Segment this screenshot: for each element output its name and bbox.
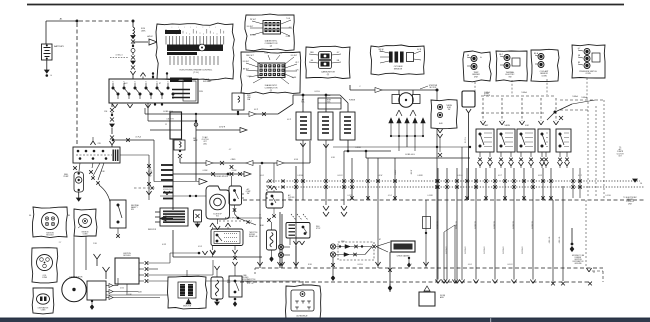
wire cross y147	[333, 146, 470, 148]
coil connector	[32, 248, 58, 283]
svg-text:0.5 T: 0.5 T	[248, 221, 252, 223]
svg-text:MOTOR: MOTOR	[430, 87, 437, 89]
svg-text:RES: RES	[227, 282, 230, 284]
svg-text:PK W-T: PK W-T	[250, 19, 257, 21]
neutral safety switch S3	[110, 200, 126, 228]
relay module stubs	[210, 223, 213, 227]
svg-text:0.8 BR-W: 0.8 BR-W	[513, 221, 515, 229]
svg-text:0.8 O: 0.8 O	[468, 264, 473, 266]
electronic engine control module U1	[156, 23, 234, 80]
wire fuse drop x470	[468, 113, 470, 147]
svg-text:THERM: THERM	[446, 105, 452, 107]
svg-text:CONN: CONN	[42, 277, 48, 279]
diagnostic connector J2	[241, 52, 301, 94]
inline connector on wire x426	[425, 200, 427, 268]
svg-text:0.5 O: 0.5 O	[388, 195, 393, 197]
svg-text:IGNITION: IGNITION	[574, 259, 582, 261]
svg-text:BATTERY: BATTERY	[54, 45, 64, 48]
wire columns center-right lower	[443, 232, 445, 280]
svg-text:5 BK-A: 5 BK-A	[572, 95, 578, 98]
throttle kicker relay K0	[431, 100, 457, 129]
svg-text:CONN: CONN	[41, 309, 46, 311]
wire fuel pump drop	[78, 192, 80, 198]
wire dashed corner right	[585, 200, 587, 266]
top border rule	[27, 4, 624, 6]
svg-text:0.8 DG-O: 0.8 DG-O	[446, 246, 448, 254]
thermal electric switch connector J6	[496, 51, 527, 81]
svg-text:0.8 BR-W: 0.8 BR-W	[532, 221, 534, 229]
wire y114 to solenoid rail	[196, 113, 278, 115]
svg-text:0.8 BR-W: 0.8 BR-W	[494, 221, 496, 229]
svg-text:(2): (2)	[327, 74, 330, 76]
svg-text:0.8 BK-LG: 0.8 BK-LG	[115, 55, 123, 57]
svg-text:STOP: STOP	[316, 228, 320, 230]
wires diagonal fan	[93, 163, 100, 176]
svg-text:0.5 Y H: 0.5 Y H	[465, 136, 467, 143]
fuse F1	[462, 91, 475, 107]
svg-text:0.8 W: 0.8 W	[378, 175, 383, 177]
wire stepper feed	[350, 89, 437, 91]
svg-text:DIODE: DIODE	[440, 295, 445, 297]
A/T throttle solenoid L1	[296, 112, 311, 140]
wire riser bundle	[73, 236, 75, 238]
stepper harness arrows	[389, 118, 393, 123]
wire stub columns right	[572, 168, 574, 198]
bus dashed y282	[240, 281, 592, 283]
wire verticals x260 x280	[259, 214, 261, 268]
diode box small	[194, 210, 202, 222]
svg-text:SOL 7.5L: SOL 7.5L	[247, 283, 254, 285]
fuel pump sender	[74, 172, 84, 192]
chain above comp switch	[230, 165, 234, 169]
wire vertical x196	[195, 114, 197, 181]
ballast resistor R1	[160, 208, 188, 226]
wire dashed stub y188	[134, 187, 156, 189]
svg-text:4 BK-LG: 4 BK-LG	[549, 236, 551, 243]
wire module pin runs	[148, 262, 170, 264]
svg-text:4 RED: 4 RED	[231, 159, 237, 161]
svg-text:UNIT: UNIT	[628, 203, 632, 205]
node junction at top bus	[76, 20, 79, 23]
battery B1	[42, 44, 53, 60]
ignition module connector (5.0L)	[33, 207, 68, 238]
wire dashed drops to relays	[482, 98, 484, 121]
wire columns to EEC	[437, 168, 439, 280]
wire dashed relay feed mid	[481, 112, 545, 114]
EGR solenoid L2	[318, 112, 333, 140]
wire x260 extend	[259, 165, 261, 215]
svg-text:MODULE: MODULE	[46, 235, 54, 237]
svg-text:5 BK-A: 5 BK-A	[581, 96, 587, 99]
wire bus vertical x173	[172, 139, 174, 210]
chain below comp switch	[234, 205, 236, 214]
svg-text:0.8 T: 0.8 T	[498, 175, 502, 177]
svg-text:SOL: SOL	[327, 102, 330, 104]
wires below switch box	[73, 166, 77, 170]
wire columns far right ground	[552, 200, 554, 281]
svg-text:0.8 DG-O: 0.8 DG-O	[484, 246, 486, 254]
svg-text:0.8 DG-O: 0.8 DG-O	[503, 246, 505, 254]
svg-text:0.8 BR: 0.8 BR	[417, 175, 423, 177]
svg-text:KICKER: KICKER	[249, 234, 256, 236]
svg-text:(2): (2)	[270, 90, 273, 92]
throttle kicker solenoid	[229, 276, 242, 297]
junction block connector	[170, 112, 182, 139]
svg-text:E7: E7	[379, 239, 381, 241]
svg-text:ST: ST	[159, 83, 161, 85]
svg-text:SELECTOR: SELECTOR	[183, 306, 192, 308]
svg-text:0.8 DG-O: 0.8 DG-O	[522, 246, 524, 254]
ground G1	[45, 70, 49, 73]
svg-text:DISTRIBUTOR: DISTRIBUTOR	[38, 308, 49, 310]
fuse link box F2	[232, 93, 244, 110]
throttle kicker relay U2	[211, 229, 243, 246]
harness heavy ticks	[161, 164, 173, 166]
wire dashed right verticals	[587, 102, 589, 198]
svg-text:AAAA: AAAA	[179, 79, 185, 82]
wire run y114	[144, 108, 146, 114]
svg-text:5 BK-A: 5 BK-A	[521, 91, 527, 94]
svg-text:CUTOFF: CUTOFF	[288, 197, 294, 199]
svg-text:RED W-T: RED W-T	[246, 55, 255, 57]
svg-text:SW: SW	[509, 76, 512, 78]
svg-text:LINK: LINK	[141, 30, 146, 32]
svg-text:0.8 BR-W: 0.8 BR-W	[437, 221, 439, 229]
svg-text:0.8 W H: 0.8 W H	[219, 127, 226, 129]
svg-text:RESISTOR: RESISTOR	[148, 229, 157, 231]
wire distributor feeds	[73, 238, 75, 278]
svg-text:THERM: THERM	[504, 125, 510, 127]
svg-text:0.5 DG-O H: 0.5 DG-O H	[163, 189, 172, 191]
ignition module U3	[115, 258, 139, 284]
resistor R2	[211, 277, 223, 299]
svg-text:SENSOR: SENSOR	[394, 68, 403, 70]
bus dotted upper	[267, 180, 640, 182]
wire idle sol drop	[217, 219, 219, 224]
svg-text:0.8 DG-O: 0.8 DG-O	[465, 246, 467, 254]
wire y174 row	[173, 173, 244, 175]
svg-text:0.8 BR-W: 0.8 BR-W	[456, 221, 458, 229]
node feed junction	[554, 111, 557, 114]
svg-text:BK W-T: BK W-T	[250, 35, 257, 37]
bottom bar	[0, 318, 650, 322]
wire column x154	[153, 140, 155, 182]
svg-text:PUMP: PUMP	[64, 176, 70, 178]
check gauges indicator	[391, 241, 415, 252]
wire mid columns	[281, 214, 283, 268]
bus dashed y268	[255, 267, 603, 269]
svg-text:SEE: SEE	[243, 275, 246, 277]
svg-text:(2): (2)	[270, 45, 273, 47]
wire module ground run	[126, 284, 128, 295]
svg-text:COMP: COMP	[246, 191, 251, 193]
wire fan right of switch	[238, 217, 262, 219]
svg-text:4 BK: 4 BK	[128, 294, 131, 296]
svg-text:0.8 GY: 0.8 GY	[507, 264, 513, 266]
svg-text:0.8 O: 0.8 O	[260, 175, 265, 177]
svg-text:BK W-T: BK W-T	[243, 69, 250, 71]
svg-text:CKT: CKT	[618, 155, 621, 157]
antenna connectors	[96, 259, 98, 266]
wire chain below flasher	[179, 150, 181, 152]
headlamp switch box S2	[73, 147, 120, 163]
ignition module pins	[139, 262, 144, 264]
relay K3	[517, 129, 535, 152]
wire switch to chain x149	[120, 154, 149, 156]
wire run y121	[147, 103, 149, 121]
svg-text:GROUND TO BE: GROUND TO BE	[572, 255, 584, 257]
svg-text:CONN: CONN	[83, 234, 89, 236]
diagnostic connector J1	[245, 14, 294, 51]
a/c cutoff switch S4	[266, 192, 283, 208]
idle stop solenoid	[206, 186, 230, 219]
connector A/102	[133, 41, 148, 43]
diode assembly	[419, 292, 435, 306]
wire y130 branch	[196, 129, 240, 131]
distributor ground	[91, 300, 93, 302]
svg-text:IDLE STOP: IDLE STOP	[213, 214, 221, 216]
connector circles pair	[278, 244, 283, 249]
svg-text:GROUND: GROUND	[574, 263, 582, 265]
wire bus tail to splice row	[172, 230, 174, 257]
dashed splice note	[219, 220, 245, 222]
svg-text:SW LAMP: SW LAMP	[203, 80, 212, 83]
svg-text:SOL: SOL	[301, 102, 304, 104]
svg-text:CONN: CONN	[585, 73, 591, 75]
wire dashed stubs from connectors	[474, 82, 476, 94]
emission selector box	[168, 276, 208, 309]
svg-text:0.8 DB: 0.8 DB	[297, 175, 303, 177]
wire check gauge drop	[389, 252, 391, 292]
svg-text:GY-R: GY-R	[417, 49, 422, 51]
svg-text:0.5 BR: 0.5 BR	[427, 195, 433, 197]
svg-text:PURGE: PURGE	[349, 100, 356, 102]
a/c fan relay K6	[286, 285, 321, 319]
wire battery feed	[46, 20, 77, 22]
ignition switch S1	[109, 79, 198, 103]
egr load resistor R3	[267, 230, 277, 250]
svg-text:0.8 LG: 0.8 LG	[457, 175, 463, 177]
svg-text:C2B: C2B	[97, 143, 100, 145]
cigar lighter / flasher	[174, 140, 185, 150]
svg-text:DISTRIBUTOR: DISTRIBUTOR	[70, 277, 83, 279]
purge solenoid L3	[340, 112, 355, 140]
svg-text:MOLDED SPLICE: MOLDED SPLICE	[214, 176, 229, 178]
svg-text:MODULE: MODULE	[123, 255, 131, 257]
ignition module connector (5.8L)	[74, 209, 97, 237]
oxygen sensor connector J4	[370, 45, 424, 75]
svg-text:DG W-T: DG W-T	[291, 55, 298, 57]
svg-text:CONN: CONN	[541, 75, 547, 77]
bus dotted lower	[267, 186, 645, 188]
label hot at all times	[110, 57, 128, 59]
carburetor connector J3	[305, 46, 350, 78]
distributor connector	[32, 288, 54, 314]
wire chain left column	[111, 103, 113, 107]
wire long vertical x437	[436, 90, 438, 282]
wire y196 row	[160, 195, 208, 197]
svg-text:IDLE: IDLE	[316, 226, 320, 228]
coolant sensor connector J7	[531, 49, 559, 81]
relay K1	[476, 129, 494, 152]
svg-text:C6: C6	[640, 183, 642, 185]
svg-text:IGN MOD: IGN MOD	[82, 232, 90, 234]
wire dashed relay feed top	[481, 95, 554, 97]
transducer box	[318, 98, 341, 109]
svg-text:C2: C2	[165, 124, 167, 126]
svg-text:SW: SW	[131, 209, 134, 211]
svg-text:0.5 DB: 0.5 DB	[605, 195, 611, 197]
svg-text:DISTRIBUTOR: DISTRIBUTOR	[573, 261, 585, 263]
svg-text:A/102: A/102	[147, 35, 153, 38]
svg-text:0.5 PK: 0.5 PK	[347, 195, 353, 197]
svg-text:DG W-T: DG W-T	[243, 61, 250, 63]
connector molded splice	[199, 179, 207, 185]
wire fuse link to rail	[237, 113, 239, 115]
wire run y140	[113, 139, 154, 141]
stepper connector legs	[396, 110, 399, 116]
svg-text:SOL: SOL	[216, 216, 219, 218]
svg-text:0.5 W: 0.5 W	[411, 169, 413, 174]
bus dashed y200	[243, 199, 645, 201]
wires below solenoids	[302, 140, 304, 200]
connector C6 arrow	[633, 179, 637, 182]
svg-text:5 BK-A: 5 BK-A	[484, 91, 490, 94]
warning lamps	[330, 244, 335, 249]
relay K2	[497, 129, 515, 152]
wire dashed to fusible link	[79, 20, 131, 22]
svg-text:0.8 DG: 0.8 DG	[357, 264, 363, 266]
wire lamp chains	[336, 246, 372, 248]
wire selector stub	[186, 270, 188, 277]
idle stop module U4	[286, 223, 310, 239]
distributor terminals	[106, 285, 109, 287]
relay K5	[556, 129, 571, 152]
wire solenoid feed rail	[293, 94, 340, 96]
distributor	[62, 277, 86, 301]
pressure switch connector J8	[572, 45, 605, 78]
dashed chain enclosure	[338, 242, 374, 260]
a/c compressor switch S5	[229, 186, 242, 205]
svg-text:THROTTLE: THROTTLE	[249, 232, 257, 234]
wire below kicker	[437, 129, 440, 133]
svg-text:BK: BK	[68, 215, 70, 217]
svg-text:MOLDED: MOLDED	[242, 277, 250, 279]
svg-text:0.8 BR-W: 0.8 BR-W	[475, 221, 477, 229]
relay K4	[538, 129, 550, 152]
svg-text:0.8 DG: 0.8 DG	[314, 91, 320, 93]
svg-text:0.8 BK-LG H: 0.8 BK-LG H	[405, 154, 415, 156]
svg-text:DG W-T: DG W-T	[247, 26, 254, 28]
wire riser to solenoid rail	[309, 141, 311, 163]
svg-text:(XX): (XX)	[203, 143, 207, 145]
temperature sender connector J5	[463, 51, 491, 82]
fusible link chain	[132, 20, 135, 23]
svg-text:4 BK-LG: 4 BK-LG	[559, 236, 561, 243]
svg-text:0.8 GY: 0.8 GY	[337, 175, 343, 177]
svg-text:MOLDED SPLICE: MOLDED SPLICE	[225, 218, 237, 220]
wire dashed down to switch box	[76, 23, 78, 146]
wire lamp ground drop	[332, 257, 334, 275]
svg-text:(7.5L): (7.5L)	[193, 72, 199, 74]
wire battery to ground	[46, 60, 48, 70]
idle module drops	[293, 241, 296, 245]
svg-text:C2: C2	[593, 272, 595, 274]
stepper motor M1	[392, 95, 400, 104]
ground right G2	[571, 228, 573, 243]
